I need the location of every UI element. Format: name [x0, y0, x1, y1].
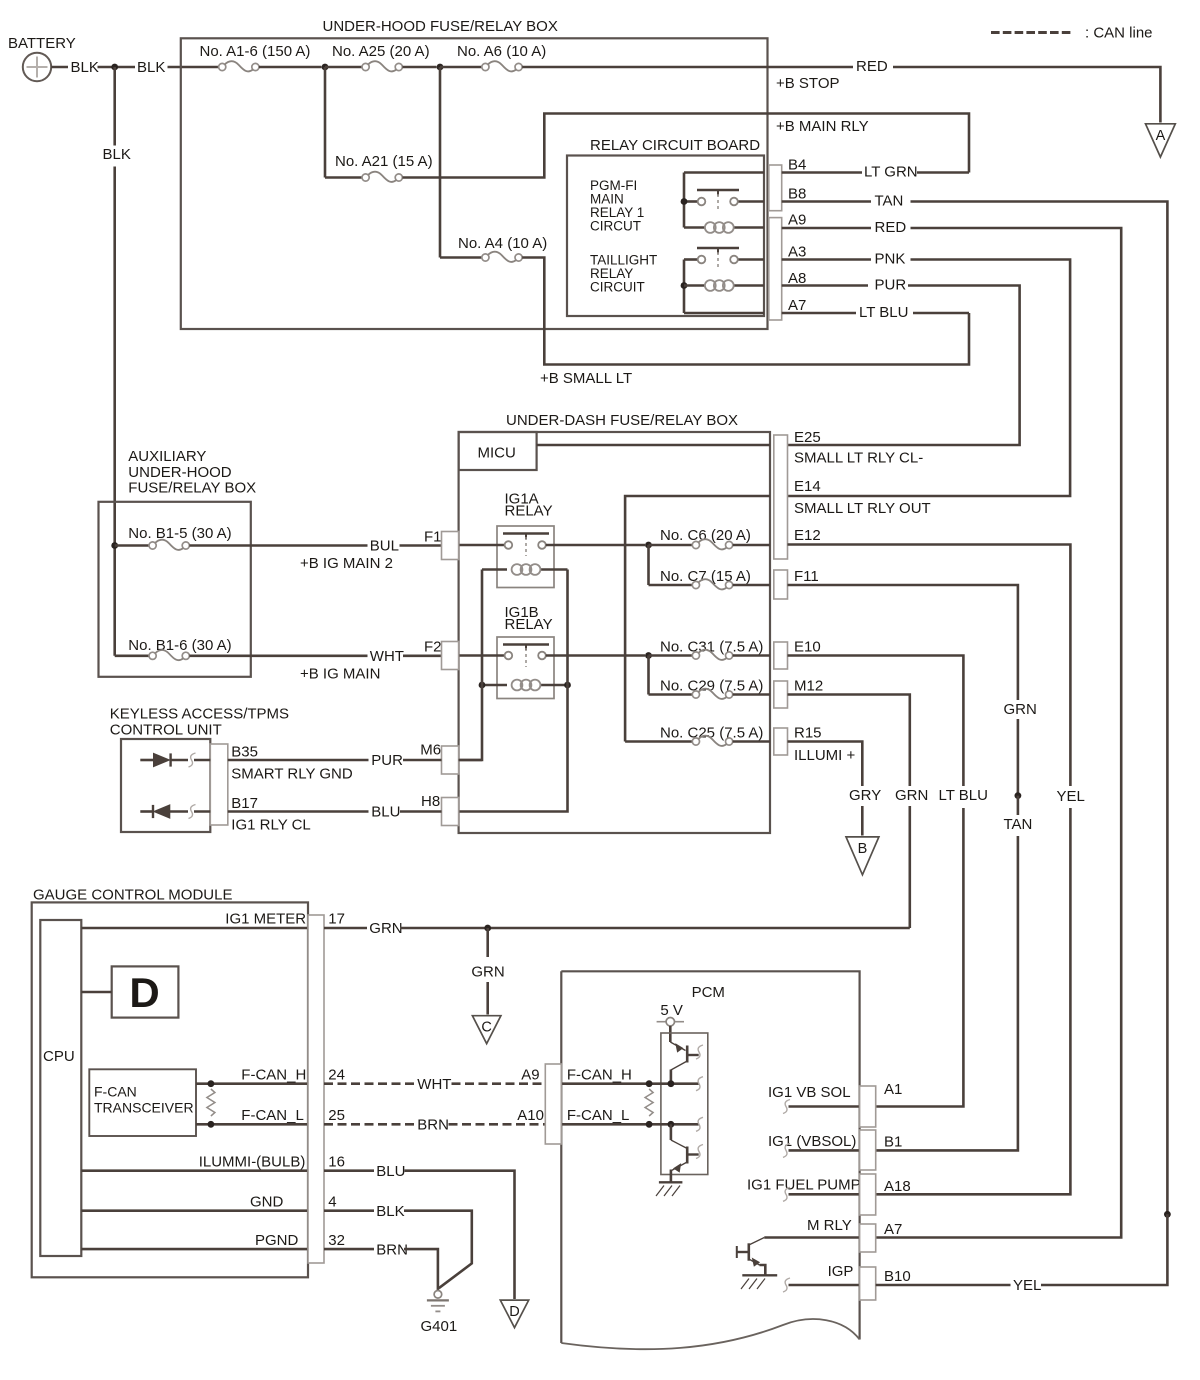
wire B35 to PUR label — [228, 759, 369, 762]
wire transceiver to F-CAN_L pin — [196, 1123, 308, 1126]
svg-text:B17: B17 — [231, 795, 258, 812]
junction node relay2 bus/coil — [681, 282, 688, 289]
wire fuse C7 to F11 pin — [733, 584, 770, 587]
wire junction to fuse C6 — [649, 544, 693, 547]
wire A7 LT BLU (left segment) — [782, 312, 856, 315]
F-CAN transceiver box — [89, 1069, 196, 1136]
wire A9 RED (left segment) — [782, 227, 871, 230]
svg-text:+B IG MAIN 2: +B IG MAIN 2 — [300, 555, 393, 572]
IG1B relay coil — [512, 680, 523, 691]
wire C7 feed vertical — [647, 545, 650, 585]
wire R15 ILLUMI+ GRY (upper) — [788, 742, 863, 787]
legend: CAN line dashed sample — [991, 31, 1072, 34]
wire F-CAN_H inside PCM — [561, 1082, 698, 1085]
svg-text:F-CAN: F-CAN — [94, 1084, 137, 1100]
svg-text:PUR: PUR — [371, 752, 403, 769]
PGM-FI main relay 1 - armature dashed link — [717, 194, 719, 212]
svg-text:A7: A7 — [788, 297, 806, 314]
IG1A relay armature dashed link — [525, 537, 527, 556]
wire A4 feed vertical — [439, 67, 442, 258]
relay board connector strip A9-A7 — [769, 218, 782, 320]
taillight relay - switch contacts (A3 row) — [684, 258, 698, 261]
svg-text:E12: E12 — [794, 527, 821, 544]
wire PUR to connector M6 — [403, 759, 442, 762]
svg-text:A: A — [1156, 128, 1166, 144]
svg-text:LT GRN: LT GRN — [864, 164, 918, 181]
wire IG1B switch to junction C31 — [546, 654, 645, 657]
wire BLU to connector D — [405, 1171, 515, 1299]
taillight relay - common bus wire — [683, 260, 686, 314]
svg-text:MICU: MICU — [478, 445, 516, 462]
svg-text:F-CAN_H: F-CAN_H — [567, 1067, 632, 1084]
keyless access/TPMS control unit box — [121, 739, 210, 832]
svg-text:IG1 VB SOL: IG1 VB SOL — [768, 1084, 851, 1101]
svg-text:B: B — [858, 841, 868, 857]
svg-text:GRN: GRN — [369, 920, 402, 937]
svg-text:F-CAN_L: F-CAN_L — [567, 1107, 630, 1124]
svg-text:H8: H8 — [421, 793, 440, 810]
svg-text:IG1 (VBSOL): IG1 (VBSOL) — [768, 1133, 856, 1150]
wire GRN branch to connector C — [486, 982, 489, 1015]
wire BLK to ground G401 — [404, 1211, 472, 1289]
PGM-FI main relay 1 - common bus wire — [683, 173, 686, 228]
wire junction to fuse C31 — [649, 654, 693, 657]
svg-text:RED: RED — [875, 219, 907, 236]
wire C7 feed to fuse — [649, 584, 693, 587]
wire GRN branch down (upper) — [486, 928, 489, 957]
svg-text:BLK: BLK — [103, 146, 131, 163]
wire BLK corner to fuse B1-6 — [115, 654, 149, 657]
svg-text:+B SMALL LT: +B SMALL LT — [540, 370, 632, 387]
wire keyless diode D2 cathode — [140, 810, 152, 813]
svg-text:No. A4 (10 A): No. A4 (10 A) — [458, 235, 547, 252]
wire BLU to connector H8 — [400, 810, 442, 813]
svg-text:CIRCUIT: CIRCUIT — [590, 279, 645, 294]
relay board connector strip B4/B8 — [769, 165, 782, 211]
svg-text:RELAY: RELAY — [505, 503, 553, 520]
svg-text:TRANSCEIVER: TRANSCEIVER — [94, 1100, 194, 1116]
junction node coil bus left — [479, 682, 486, 689]
wire splice to TAN label — [1017, 796, 1020, 815]
wire A7 LT BLU to +B SMALL LT corner — [913, 312, 969, 315]
wire pin17 to GRN label — [324, 927, 367, 930]
wire F1 to IG1A switch — [459, 544, 505, 547]
svg-text:BRN: BRN — [417, 1117, 449, 1134]
svg-text:SMART RLY GND: SMART RLY GND — [231, 766, 353, 783]
MICU box — [459, 432, 537, 470]
svg-text:F2: F2 — [424, 639, 442, 656]
connector triangle D — [500, 1300, 528, 1328]
svg-text:A9: A9 — [521, 1067, 539, 1084]
svg-text:PGND: PGND — [255, 1232, 299, 1249]
svg-text:BATTERY: BATTERY — [8, 35, 76, 52]
svg-text:CIRCUT: CIRCUT — [590, 219, 641, 234]
fuse No. A25 (20 A) — [362, 63, 369, 70]
splice node GRN/TAN — [1015, 792, 1022, 799]
svg-text:No. C7 (15 A): No. C7 (15 A) — [660, 568, 751, 585]
svg-text:24: 24 — [328, 1067, 345, 1084]
wire B4 LT GRN to +B MAIN RLY corner — [917, 171, 969, 174]
svg-text:IG1 METER: IG1 METER — [225, 911, 306, 928]
wire A3 PNK (left segment) — [782, 258, 871, 261]
svg-text:AUXILIARY: AUXILIARY — [128, 448, 206, 465]
svg-text:IG1 FUEL PUMP: IG1 FUEL PUMP — [747, 1177, 861, 1194]
wire BLK label to junction — [98, 66, 136, 69]
wire fuse C6 to E12 pin — [733, 544, 770, 547]
svg-text:TAN: TAN — [875, 193, 904, 210]
display D box — [112, 966, 179, 1017]
splice node TAN/YEL — [1164, 1211, 1171, 1218]
wire 5V to transistor Q1 — [669, 1026, 672, 1042]
svg-text:B35: B35 — [231, 744, 258, 761]
wire MICU to E25 pin — [537, 444, 770, 447]
junction node F-CAN_H Q1 — [668, 1080, 675, 1087]
wire TAN/YEL splice down to IGP row corner — [1041, 1214, 1167, 1285]
wire C29 feed to fuse — [649, 693, 693, 696]
IG1B relay armature bar — [503, 643, 549, 645]
svg-text:PUR: PUR — [875, 277, 907, 294]
svg-text:E25: E25 — [794, 429, 821, 446]
taillight relay - A7 wire — [684, 312, 764, 315]
terminal mark D1 — [189, 753, 196, 767]
wire A8 PUR (left segment) — [782, 284, 868, 287]
terminating resistor (PCM) — [645, 1089, 653, 1116]
wire M12 GRN (upper) — [788, 695, 910, 787]
transistor Q3 ground — [742, 1274, 777, 1276]
wire junction to fuse A25 — [325, 66, 362, 69]
junction node F-CAN_L resistor (PCM) — [646, 1121, 653, 1128]
wire F-CAN_L dashed (gauge side) — [324, 1123, 415, 1126]
wire relay coil left bus to M6 — [459, 570, 482, 761]
junction node row1/A21 feed — [322, 64, 329, 71]
svg-text:GRY: GRY — [849, 787, 881, 804]
svg-text:PNK: PNK — [875, 251, 906, 268]
under-dash connector M6 — [442, 746, 459, 774]
svg-text:F-CAN_H: F-CAN_H — [241, 1067, 306, 1084]
wire RED to connector A corner — [893, 67, 1160, 123]
wire fuse B1-5 to BUL label — [189, 544, 367, 547]
transistor Q2 (CAN low side) — [670, 1124, 673, 1140]
connector triangle B — [846, 837, 879, 875]
wire BLK vertical to auxiliary box (upper) — [113, 67, 116, 146]
wire C29 feed vertical — [647, 656, 650, 695]
svg-text:RELAY: RELAY — [505, 616, 553, 633]
gauge control module box — [32, 902, 308, 1277]
IG1B relay box — [497, 637, 554, 699]
under-dash connector F11 — [774, 570, 788, 599]
svg-text:25: 25 — [328, 1107, 345, 1124]
svg-text:IGP: IGP — [828, 1263, 854, 1280]
wire diode D1 to terminal — [171, 759, 188, 762]
svg-text:UNDER-HOOD FUSE/RELAY BOX: UNDER-HOOD FUSE/RELAY BOX — [323, 18, 558, 35]
taillight relay - coil — [684, 284, 705, 287]
PCM left connector (A9/A10) — [545, 1064, 561, 1144]
fuse No. A21 (15 A) — [362, 174, 369, 181]
wire A21 feed vertical — [324, 67, 327, 178]
wire CPU to IG1 METER pin — [81, 927, 308, 930]
wire A3 PNK run down to E14 — [788, 260, 1071, 497]
PCM CAN driver block box — [661, 1033, 708, 1175]
wire IG1 (VBSOL) to B1 — [789, 1149, 860, 1152]
wire pin16 to BLU label — [324, 1169, 374, 1172]
fuse No. C29 (7.5 A) — [692, 691, 699, 698]
terminal mark A18 row — [783, 1187, 790, 1201]
svg-text:SMALL LT RLY OUT: SMALL LT RLY OUT — [794, 500, 931, 517]
svg-text:5 V: 5 V — [660, 1002, 683, 1019]
junction node C6/C7 feed — [645, 542, 652, 549]
wire A4 feed horizontal — [440, 256, 482, 259]
svg-text:GAUGE CONTROL MODULE: GAUGE CONTROL MODULE — [33, 887, 232, 904]
fuse No. C25 (7.5 A) — [692, 738, 699, 745]
PCM box outline — [561, 971, 859, 1339]
taillight relay - armature dashed link — [717, 252, 719, 270]
PGM-FI main relay 1 - coil — [684, 226, 705, 229]
svg-text:CONTROL UNIT: CONTROL UNIT — [110, 721, 222, 738]
svg-text:ILLUMI +: ILLUMI + — [794, 747, 856, 764]
svg-text:: CAN line: : CAN line — [1085, 25, 1153, 42]
wire BLK vertical to auxiliary box (lower) — [113, 167, 116, 656]
svg-text:A1: A1 — [884, 1081, 902, 1098]
wire TAN to B1 row — [876, 836, 1018, 1150]
junction node F-CAN_L term resistor — [208, 1121, 215, 1128]
fuse No. A6 (10 A) — [482, 63, 489, 70]
svg-text:No. A6 (10 A): No. A6 (10 A) — [457, 43, 546, 60]
wire terminal to box edge B35 — [194, 759, 210, 762]
svg-text:4: 4 — [328, 1194, 336, 1211]
wire BLK to under-hood box fuse A1-6 — [168, 66, 219, 69]
svg-text:GRN: GRN — [1004, 701, 1037, 718]
svg-text:F11: F11 — [794, 568, 819, 585]
wire M RLY to A7 — [764, 1236, 859, 1239]
wire CPU to ILUMMI pin — [81, 1169, 308, 1172]
svg-text:YEL: YEL — [1057, 788, 1085, 805]
svg-text:No. A25 (20 A): No. A25 (20 A) — [332, 43, 430, 60]
wire pin32 to BRN label — [324, 1248, 374, 1251]
svg-text:A18: A18 — [884, 1178, 911, 1195]
wire CPU to PGND pin — [81, 1248, 308, 1251]
wire fuse A21 to +B MAIN RLY riser — [403, 114, 970, 178]
diode D2 (IG1 rly cl) — [152, 805, 154, 818]
wire IGP to B10 — [789, 1284, 860, 1287]
PCM 5V supply symbol — [657, 1021, 666, 1023]
svg-text:A9: A9 — [788, 212, 806, 229]
wire diode D2 to terminal — [170, 810, 188, 813]
wire fuse A1-6 to junction A25 — [259, 66, 322, 69]
junction node BLK/B1-5 — [111, 542, 118, 549]
wire F-CAN_H dashed to PCM — [452, 1082, 546, 1085]
svg-text:B1: B1 — [884, 1134, 902, 1151]
svg-text:RELAY CIRCUIT BOARD: RELAY CIRCUIT BOARD — [590, 137, 760, 154]
svg-text:D: D — [509, 1304, 519, 1320]
svg-text:M6: M6 — [420, 742, 441, 759]
terminal mark D2 — [189, 805, 196, 819]
svg-text:A10: A10 — [517, 1107, 544, 1124]
connector triangle A — [1146, 124, 1176, 157]
svg-text:PCM: PCM — [692, 984, 725, 1001]
IG1A relay box — [497, 526, 554, 588]
svg-text:17: 17 — [328, 911, 345, 928]
wire fuse A25 to junction A4 feed — [403, 66, 437, 69]
junction node GRN branch — [484, 925, 491, 932]
wire B8 TAN long run to splice — [911, 202, 1168, 1215]
svg-text:CPU: CPU — [43, 1048, 75, 1065]
under-dash connector F1 — [442, 532, 459, 560]
wire F-CAN_L dashed to PCM — [449, 1123, 546, 1126]
wire B17 to BLU label — [228, 810, 369, 813]
wire junction to fuse A6 — [440, 66, 482, 69]
CPU box — [40, 920, 81, 1256]
wire B8 TAN (left segment) — [782, 200, 871, 203]
IG1B relay coil wires — [482, 684, 507, 687]
svg-text:D: D — [129, 969, 159, 1016]
wire battery to BLK label — [51, 66, 68, 69]
svg-text:GND: GND — [250, 1194, 284, 1211]
svg-text:BLK: BLK — [376, 1203, 404, 1220]
wire A8 PUR run down to E25 — [788, 286, 1020, 446]
svg-text:G401: G401 — [421, 1318, 458, 1335]
wire E12 to YEL riser (upper) — [788, 545, 1071, 787]
wire A9 RED long run to M RLY row — [876, 228, 1121, 1238]
svg-text:RED: RED — [856, 58, 888, 75]
PCM torn bottom edge — [561, 1319, 859, 1349]
relay circuit board outline — [567, 156, 764, 317]
PCM CAN driver ground — [659, 1181, 683, 1183]
under-dash fuse/relay box outline — [459, 432, 770, 833]
IG1B relay switch contacts — [505, 652, 513, 660]
diode D1 (smart rly gnd) — [154, 753, 170, 766]
terminal mark A1 row — [783, 1100, 790, 1114]
svg-text:SMALL LT RLY CL-: SMALL LT RLY CL- — [794, 450, 923, 467]
svg-text:+B STOP: +B STOP — [776, 75, 840, 92]
PGM-FI main relay 1 - armature bar — [697, 189, 739, 191]
svg-text:LT BLU: LT BLU — [939, 787, 988, 804]
wire fuse B1-6 to WHT label — [189, 654, 367, 657]
fuse No. C7 (15 A) — [692, 581, 699, 588]
wire fuse C29 to M12 pin — [733, 693, 770, 696]
svg-text:+B IG MAIN: +B IG MAIN — [300, 665, 380, 682]
wire M6 into under-dash box — [459, 759, 482, 762]
svg-text:KEYLESS ACCESS/TPMS: KEYLESS ACCESS/TPMS — [110, 706, 289, 723]
PCM connector B10 — [860, 1267, 876, 1300]
junction node F-CAN_H resistor (PCM) — [646, 1080, 653, 1087]
wire fuse C25 to R15 pin — [733, 740, 770, 743]
svg-text:BLU: BLU — [376, 1163, 405, 1180]
wire fuse C31 to E10 pin — [733, 654, 770, 657]
svg-text:F1: F1 — [424, 529, 442, 546]
svg-text:No. B1-6 (30 A): No. B1-6 (30 A) — [128, 637, 231, 654]
wire terminal to box edge B17 — [194, 810, 210, 813]
junction node row1/A4 feed — [437, 64, 444, 71]
svg-text:YEL: YEL — [1013, 1277, 1041, 1294]
wire B4 LT GRN (left segment) — [782, 171, 862, 174]
under-dash connector H8 — [442, 798, 459, 826]
wire F11 GRN (upper) — [788, 585, 1018, 700]
svg-text:B4: B4 — [788, 157, 806, 174]
wire WHT to connector F2 — [403, 654, 442, 657]
svg-text:32: 32 — [328, 1232, 345, 1249]
fuse No. B1-5 (30 A) — [149, 542, 156, 549]
PCM connector B1 — [860, 1130, 876, 1170]
wire IG1A switch to junction C6 — [546, 544, 645, 547]
junction node F-CAN_H term resistor — [208, 1080, 215, 1087]
auxiliary under-hood fuse/relay box outline — [99, 502, 251, 677]
fuse No. C6 (20 A) — [692, 541, 699, 548]
PGM-FI main relay 1 - B4 wire — [684, 171, 764, 174]
wire LT BLU to A1 row — [876, 808, 964, 1107]
svg-text:WHT: WHT — [417, 1076, 451, 1093]
wire fuse A6 to RED label (+B STOP) — [522, 66, 853, 69]
transistor Q1 (CAN high side) — [670, 1042, 685, 1051]
under-dash connector F2 — [442, 642, 459, 670]
wire GRN to splice — [1017, 719, 1020, 796]
wire GRY to connector B — [861, 806, 864, 836]
wire CPU to GND pin — [81, 1209, 308, 1212]
wire transceiver to F-CAN_H pin — [196, 1082, 308, 1085]
wire B10 to YEL label — [876, 1284, 1011, 1287]
svg-text:BLK: BLK — [71, 59, 99, 76]
svg-text:UNDER-HOOD: UNDER-HOOD — [128, 464, 231, 481]
fuse No. B1-6 (30 A) — [149, 652, 156, 659]
svg-text:C: C — [481, 1020, 491, 1036]
svg-text:M RLY: M RLY — [807, 1217, 852, 1234]
PCM connector A1 — [860, 1086, 876, 1127]
wire YEL riser to A18 row — [876, 808, 1071, 1194]
junction node F-CAN_L Q2 — [668, 1121, 675, 1128]
IG1A relay switch contacts — [505, 541, 513, 549]
connector triangle C — [472, 1016, 501, 1044]
fuse No. A1-6 (150 A) — [219, 63, 226, 70]
svg-text:E10: E10 — [794, 639, 821, 656]
keyless connector strip — [210, 744, 228, 825]
svg-text:A3: A3 — [788, 244, 806, 261]
IG1A relay coil wires — [482, 568, 507, 571]
svg-text:FUSE/RELAY BOX: FUSE/RELAY BOX — [128, 480, 256, 497]
terminal mark B10 row — [783, 1278, 790, 1292]
svg-text:GRN: GRN — [895, 787, 928, 804]
terminal mark B1 row — [783, 1143, 790, 1157]
svg-text:BUL: BUL — [370, 538, 399, 555]
svg-text:IG1 RLY CL: IG1 RLY CL — [231, 817, 310, 834]
svg-text:+B MAIN RLY: +B MAIN RLY — [776, 118, 869, 135]
wire A21 feed horizontal — [325, 176, 362, 179]
wire junction to fuse B1-5 — [115, 544, 149, 547]
svg-text:16: 16 — [328, 1154, 345, 1171]
wire F2 to IG1B switch — [459, 654, 505, 657]
svg-text:ILUMMI-(BULB): ILUMMI-(BULB) — [199, 1154, 306, 1171]
under-dash connector R15 — [774, 728, 788, 755]
wire E10 LT BLU (upper) — [788, 656, 964, 787]
junction node C31/C29 feed — [645, 652, 652, 659]
wire fuse C25 feed to fuse — [625, 740, 692, 743]
wire pin4 to BLK label — [324, 1209, 374, 1212]
svg-text:BLK: BLK — [137, 59, 165, 76]
svg-text:No. A21 (15 A): No. A21 (15 A) — [335, 153, 433, 170]
svg-text:E14: E14 — [794, 478, 821, 495]
svg-text:F-CAN_L: F-CAN_L — [241, 1107, 304, 1124]
wire F-CAN_H dashed (gauge side) — [324, 1082, 415, 1085]
ground G401 symbol — [434, 1291, 442, 1299]
IG1B relay armature dashed link — [525, 648, 527, 667]
svg-text:LT BLU: LT BLU — [859, 304, 908, 321]
fuse No. C31 (7.5 A) — [692, 652, 699, 659]
under-dash connector E25/E14/E12 — [774, 435, 788, 559]
PGM-FI main relay 1 - switch contacts — [684, 200, 698, 203]
wire F-CAN_L inside PCM — [561, 1123, 698, 1126]
wire keyless diode D1 anode — [140, 759, 153, 762]
svg-text:B10: B10 — [884, 1268, 911, 1285]
svg-text:BRN: BRN — [376, 1242, 408, 1259]
wire CPU to D box — [81, 991, 111, 994]
